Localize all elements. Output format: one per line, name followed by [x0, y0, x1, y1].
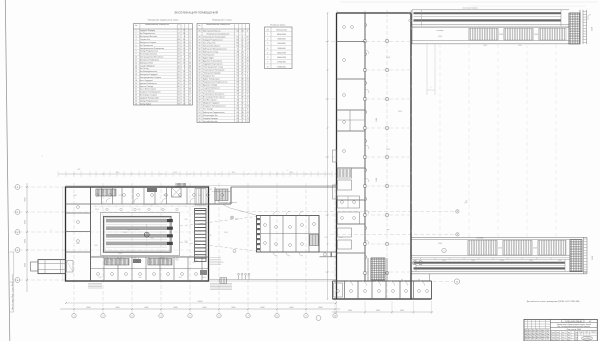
svg-text:Душевая Бойлерная: Душевая Бойлерная: [140, 82, 157, 85]
svg-text:Изм: Изм: [536, 329, 539, 331]
svg-text:Тамбур Раздевальная: Тамбур Раздевальная: [140, 51, 158, 53]
svg-text:4: 4: [247, 76, 248, 78]
svg-text:1600x1900: 1600x1900: [277, 57, 286, 59]
svg-text:44: 44: [199, 85, 201, 87]
svg-text:Кладовая Зал: Кладовая Зал: [203, 76, 215, 78]
svg-text:Изм: Изм: [524, 336, 527, 338]
svg-text:35: 35: [178, 100, 180, 102]
svg-text:40: 40: [199, 73, 201, 75]
svg-text:6000: 6000: [116, 307, 120, 309]
svg-text:Подпи: Подпи: [540, 339, 545, 341]
svg-text:Погп: Погп: [551, 337, 554, 339]
svg-text:16: 16: [178, 54, 180, 56]
svg-text:обходная дорожка: обходная дорожка: [143, 204, 157, 206]
svg-text:85: 85: [178, 86, 180, 88]
svg-text:Погп: Погп: [551, 332, 554, 334]
svg-text:19: 19: [247, 97, 249, 99]
svg-text:18: 18: [135, 80, 137, 82]
svg-text:Мастерская Бассейн: Мастерская Бассейн: [140, 35, 157, 38]
svg-text:Погп: Погп: [575, 332, 578, 334]
svg-text:63: 63: [237, 45, 239, 47]
svg-text:Изм: Изм: [546, 334, 549, 336]
svg-text:Наименование помещения: Наименование помещения: [145, 24, 169, 26]
svg-text:38: 38: [199, 67, 201, 69]
svg-text:88: 88: [237, 82, 239, 84]
svg-text:20: 20: [189, 62, 191, 64]
svg-text:Погп: Погп: [556, 334, 559, 336]
svg-text:37: 37: [183, 100, 185, 102]
svg-text:22: 22: [189, 80, 191, 82]
svg-text:3000: 3000: [529, 260, 533, 262]
svg-text:28: 28: [242, 115, 244, 117]
svg-text:16: 16: [183, 89, 185, 91]
svg-text:Венткамера Комната: Венткамера Комната: [140, 54, 158, 56]
svg-text:6000: 6000: [290, 307, 294, 309]
svg-text:29: 29: [199, 39, 201, 41]
svg-text:к-та: к-та: [77, 243, 80, 245]
svg-text:6: 6: [136, 45, 137, 47]
svg-text:Санузел Бойлерная: Санузел Бойлерная: [203, 87, 220, 90]
svg-text:28: 28: [199, 36, 201, 38]
svg-text:68: 68: [178, 39, 180, 41]
svg-text:2: 2: [247, 54, 248, 56]
svg-text:МОП: МОП: [235, 219, 239, 221]
svg-text:78: 78: [178, 103, 180, 105]
svg-text:6000: 6000: [232, 172, 236, 174]
svg-text:76: 76: [178, 95, 180, 97]
svg-text:1: 1: [73, 316, 74, 318]
svg-text:22.08: 22.08: [106, 262, 110, 264]
svg-text:28.00: 28.00: [148, 262, 152, 264]
svg-text:6: 6: [267, 57, 268, 59]
svg-text:54: 54: [199, 115, 201, 117]
svg-text:38: 38: [237, 51, 239, 53]
svg-text:Зал Раздевальная: Зал Раздевальная: [140, 33, 155, 35]
svg-text:15.00: 15.00: [386, 57, 390, 59]
svg-text:Погп: Погп: [561, 337, 564, 339]
svg-text:2: 2: [267, 39, 268, 41]
svg-text:37: 37: [178, 57, 180, 59]
svg-text:84: 84: [237, 39, 239, 41]
svg-text:24: 24: [247, 88, 249, 90]
svg-text:12: 12: [135, 62, 137, 64]
svg-text:80: 80: [237, 70, 239, 72]
svg-text:24: 24: [135, 97, 137, 99]
svg-text:Изм: Изм: [524, 334, 527, 336]
svg-text:4: 4: [190, 33, 191, 35]
svg-text:Изм: Изм: [532, 336, 535, 338]
svg-text:Наименование помещения: Наименование помещения: [206, 24, 230, 26]
svg-text:Погп: Погп: [551, 334, 554, 336]
svg-text:50: 50: [178, 74, 180, 76]
svg-text:Комната Тамбур: Комната Тамбур: [140, 86, 154, 88]
svg-text:89: 89: [178, 77, 180, 79]
svg-text:зал: зал: [387, 229, 390, 231]
svg-text:41: 41: [199, 76, 201, 78]
svg-text:5: 5: [189, 316, 190, 318]
svg-text:9: 9: [190, 86, 191, 88]
svg-text:6: 6: [242, 106, 243, 108]
svg-text:28: 28: [247, 60, 249, 62]
svg-text:36: 36: [199, 60, 201, 62]
svg-text:15.00: 15.00: [499, 34, 503, 36]
svg-text:Зал Фильтровальная: Зал Фильтровальная: [140, 70, 158, 73]
svg-text:23: 23: [183, 51, 185, 53]
svg-text:36: 36: [242, 67, 244, 69]
svg-text:Санузел Зал: Санузел Зал: [140, 39, 151, 41]
svg-text:24: 24: [237, 54, 239, 56]
svg-text:Подпи: Подпи: [540, 334, 545, 336]
svg-text:Подпи: Подпи: [540, 332, 545, 334]
svg-text:1: 1: [267, 34, 268, 36]
svg-text:перегородки кирпичные: перегородки кирпичные: [219, 202, 237, 204]
svg-text:6000: 6000: [203, 307, 207, 309]
svg-text:Инв. № подл. Подп. и дата Вз: Инв. № подл. Подп. и дата Взам. инв. №: [11, 274, 14, 310]
svg-text:8900x2600: 8900x2600: [277, 34, 286, 36]
svg-text:9.03: 9.03: [185, 219, 188, 221]
svg-text:13: 13: [189, 74, 191, 76]
svg-text:Погп: Погп: [556, 337, 559, 339]
svg-text:13: 13: [135, 65, 137, 67]
svg-text:64: 64: [237, 115, 239, 117]
svg-text:Гардероб Коридор: Гардероб Коридор: [140, 30, 156, 32]
svg-text:Изм: Изм: [524, 329, 527, 331]
svg-text:7: 7: [184, 68, 185, 70]
svg-text:Изм: Изм: [536, 332, 539, 334]
svg-text:6: 6: [237, 97, 238, 99]
svg-text:2600x900: 2600x900: [278, 39, 286, 41]
svg-text:1: 1: [431, 87, 432, 89]
svg-text:Буфет Буфет: Буфет Буфет: [203, 56, 214, 59]
svg-text:Фильтровальная Помещение: Фильтровальная Помещение: [140, 47, 164, 50]
svg-text:8.06: 8.06: [139, 277, 142, 279]
svg-text:46: 46: [237, 106, 239, 108]
svg-text:14: 14: [242, 63, 244, 65]
svg-text:23: 23: [247, 48, 249, 50]
svg-text:79: 79: [178, 45, 180, 47]
svg-text:Р: Р: [580, 334, 581, 336]
svg-text:Изм: Изм: [524, 332, 527, 334]
svg-text:24: 24: [189, 77, 191, 79]
svg-text:10: 10: [334, 316, 336, 318]
svg-text:9: 9: [136, 54, 137, 56]
svg-text:50: 50: [199, 103, 201, 105]
svg-text:3.02: 3.02: [179, 277, 182, 279]
svg-text:33: 33: [242, 109, 244, 111]
svg-text:3000: 3000: [558, 260, 562, 262]
svg-text:55: 55: [199, 118, 201, 120]
svg-text:Касса Бассейн: Касса Бассейн: [203, 41, 215, 44]
svg-text:28: 28: [189, 89, 191, 91]
svg-text:1600x900: 1600x900: [278, 48, 286, 50]
svg-text:5: 5: [247, 51, 248, 53]
svg-text:32: 32: [199, 48, 201, 50]
svg-text:6000: 6000: [25, 220, 27, 224]
svg-text:31: 31: [199, 45, 201, 47]
svg-text:26: 26: [183, 71, 185, 73]
svg-text:Коридор Раздевальная: Коридор Раздевальная: [203, 39, 222, 41]
svg-text:2: 2: [242, 100, 243, 102]
svg-text:Погп: Погп: [575, 334, 578, 336]
svg-text:Изм: Изм: [546, 336, 549, 338]
svg-text:12.00: 12.00: [118, 253, 122, 255]
svg-text:Электрощитовая Санузел: Электрощитовая Санузел: [140, 77, 162, 79]
svg-text:Зал Тамбур: Зал Тамбур: [203, 109, 213, 111]
svg-text:42: 42: [199, 79, 201, 81]
svg-text:12: 12: [183, 74, 185, 76]
svg-text:Изм: Изм: [532, 329, 535, 331]
svg-text:6000: 6000: [232, 307, 236, 309]
svg-text:19: 19: [135, 83, 137, 85]
svg-text:8: 8: [178, 36, 179, 38]
svg-text:35: 35: [242, 45, 244, 47]
svg-text:Помещения обслуживания: Помещения обслуживания: [207, 33, 229, 35]
svg-text:16: 16: [247, 91, 249, 93]
svg-text:31: 31: [178, 51, 180, 53]
svg-text:50: 50: [237, 73, 239, 75]
svg-text:38: 38: [242, 112, 244, 114]
svg-text:6000: 6000: [145, 307, 149, 309]
svg-text:35: 35: [199, 57, 201, 59]
svg-text:31: 31: [183, 97, 185, 99]
svg-text:Изм: Изм: [546, 329, 549, 331]
svg-text:Условные обозн.: Условные обозн.: [270, 25, 286, 27]
svg-text:56: 56: [199, 121, 201, 123]
svg-text:16.02: 16.02: [224, 232, 228, 234]
svg-text:Бойлерная Фильтровальная: Бойлерная Фильтровальная: [203, 47, 227, 50]
svg-text:3000: 3000: [376, 310, 380, 312]
svg-text:Изм: Изм: [528, 334, 531, 336]
svg-text:44: 44: [178, 92, 180, 94]
svg-text:4: 4: [190, 36, 191, 38]
svg-text:17: 17: [237, 60, 239, 62]
svg-text:41: 41: [178, 68, 180, 70]
svg-text:21: 21: [242, 73, 244, 75]
svg-text:9: 9: [190, 30, 191, 32]
svg-text:Погп: Погп: [567, 332, 570, 334]
svg-text:4: 4: [184, 65, 185, 67]
svg-text:Тамбур Раздевальная: Тамбур Раздевальная: [140, 100, 158, 102]
svg-text:8: 8: [267, 66, 268, 68]
svg-text:10: 10: [189, 71, 191, 73]
svg-text:22: 22: [183, 95, 185, 97]
svg-text:76: 76: [237, 76, 239, 78]
svg-text:6: 6: [190, 97, 191, 99]
svg-text:15: 15: [237, 36, 239, 38]
svg-text:900x2600: 900x2600: [278, 43, 286, 45]
svg-text:Помещение Коридор: Помещение Коридор: [203, 73, 221, 75]
svg-text:25: 25: [242, 91, 244, 93]
svg-text:Подпи: Подпи: [540, 329, 545, 331]
svg-text:26: 26: [199, 30, 201, 32]
svg-text:92: 92: [237, 88, 239, 90]
svg-text:16.08: 16.08: [163, 195, 167, 197]
svg-text:3.000: 3.000: [376, 178, 378, 182]
svg-text:23: 23: [247, 121, 249, 123]
svg-text:В 900-900: В 900-900: [277, 62, 285, 64]
svg-text:11: 11: [237, 103, 239, 105]
svg-text:21: 21: [135, 89, 137, 91]
svg-text:36: 36: [242, 79, 244, 81]
svg-text:16: 16: [178, 71, 180, 73]
svg-text:36: 36: [183, 42, 185, 44]
svg-text:Электрощитовая Вестибюль: Электрощитовая Вестибюль: [140, 57, 164, 59]
svg-text:30: 30: [199, 42, 201, 44]
svg-text:46: 46: [199, 91, 201, 93]
svg-text:15.00: 15.00: [534, 34, 538, 36]
svg-text:32: 32: [237, 100, 239, 102]
svg-text:27.01: 27.01: [161, 258, 165, 260]
svg-text:14: 14: [242, 88, 244, 90]
svg-text:45: 45: [199, 88, 201, 90]
svg-text:18: 18: [247, 106, 249, 108]
svg-text:29: 29: [183, 48, 185, 50]
svg-text:Изм: Изм: [532, 332, 535, 334]
svg-text:19: 19: [183, 77, 185, 79]
svg-text:3000: 3000: [500, 260, 504, 262]
svg-text:13: 13: [178, 80, 180, 82]
svg-text:Кладовая Фильтровальная: Кладовая Фильтровальная: [203, 105, 225, 108]
svg-text:Бойлерная Санузел: Бойлерная Санузел: [140, 41, 157, 44]
svg-text:27: 27: [247, 39, 249, 41]
svg-text:15: 15: [135, 71, 137, 73]
svg-text:8: 8: [190, 95, 191, 97]
svg-text:14.00: 14.00: [202, 277, 206, 279]
svg-text:48: 48: [199, 97, 201, 99]
svg-text:гидромассажная: гидромассажная: [127, 229, 139, 231]
svg-text:15.00: 15.00: [592, 256, 594, 260]
svg-text:16: 16: [242, 103, 244, 105]
svg-text:Лаборатория Зал: Лаборатория Зал: [203, 115, 218, 117]
svg-text:Гардероб Лаборатория: Гардероб Лаборатория: [140, 97, 159, 99]
svg-text:12: 12: [242, 39, 244, 41]
svg-text:88: 88: [237, 118, 239, 120]
svg-text:1600x1900: 1600x1900: [277, 52, 286, 54]
svg-text:5: 5: [136, 42, 137, 44]
svg-text:26: 26: [247, 79, 249, 81]
svg-text:54: 54: [178, 97, 180, 99]
svg-text:Обозначение: Обозначение: [276, 29, 287, 31]
svg-text:17: 17: [178, 33, 180, 35]
svg-text:3: 3: [184, 36, 185, 38]
svg-text:Медпункт Гардероб: Медпункт Гардероб: [203, 103, 219, 105]
svg-text:9: 9: [247, 94, 248, 96]
svg-text:20: 20: [247, 112, 249, 114]
svg-text:7: 7: [267, 62, 268, 64]
svg-text:37: 37: [237, 57, 239, 59]
svg-text:Буфет Лаборатория: Буфет Лаборатория: [203, 78, 220, 81]
svg-text:Изм: Изм: [532, 334, 535, 336]
svg-text:12: 12: [189, 48, 191, 50]
svg-text:15.00: 15.00: [592, 27, 594, 31]
svg-text:Изм: Изм: [528, 339, 531, 341]
svg-text:3000: 3000: [483, 45, 487, 47]
svg-text:Ж: Ж: [17, 232, 19, 234]
svg-text:26: 26: [247, 67, 249, 69]
svg-text:Погп: Погп: [556, 332, 559, 334]
svg-text:п/п: п/п: [266, 29, 268, 31]
svg-text:4: 4: [247, 103, 248, 105]
svg-text:16: 16: [189, 83, 191, 85]
svg-text:39: 39: [199, 70, 201, 72]
svg-text:25: 25: [189, 57, 191, 59]
svg-text:16.00: 16.00: [398, 111, 402, 113]
svg-text:17: 17: [247, 70, 249, 72]
svg-text:3.000: 3.000: [376, 118, 378, 122]
svg-text:6000: 6000: [319, 307, 323, 309]
svg-text:7: 7: [242, 76, 243, 78]
svg-text:Зал Тренерская: Зал Тренерская: [140, 45, 153, 47]
svg-text:29: 29: [189, 54, 191, 56]
svg-text:34: 34: [199, 54, 201, 56]
svg-text:3: 3: [267, 43, 268, 45]
svg-text:81: 81: [237, 63, 239, 65]
svg-text:19: 19: [189, 100, 191, 102]
svg-text:17: 17: [135, 77, 137, 79]
svg-text:9: 9: [247, 73, 248, 75]
svg-text:Погп: Погп: [567, 337, 570, 339]
svg-text:Погп: Погп: [575, 337, 578, 339]
svg-text:63: 63: [237, 121, 239, 123]
svg-text:1: 1: [444, 250, 445, 252]
svg-text:80: 80: [237, 42, 239, 44]
svg-text:9: 9: [305, 316, 306, 318]
svg-text:10.07: 10.07: [73, 195, 77, 197]
svg-text:37: 37: [199, 63, 201, 65]
svg-text:29: 29: [247, 36, 249, 38]
svg-text:Данный план этажа с размерами: Данный план этажа с размерами (УЗЛЫ 1-24…: [527, 300, 580, 303]
svg-text:3.14: 3.14: [208, 189, 211, 191]
svg-text:5: 5: [190, 51, 191, 53]
svg-text:15.00: 15.00: [438, 36, 442, 38]
svg-text:3: 3: [131, 316, 132, 318]
svg-text:Зал Мастерская: Зал Мастерская: [203, 100, 217, 102]
svg-text:19: 19: [237, 94, 239, 96]
svg-text:ЛенЗНИИЭП: ЛенЗНИИЭП: [583, 338, 591, 340]
svg-text:Электрощитовая Склад: Электрощитовая Склад: [203, 67, 224, 69]
svg-text:В 900-900: В 900-900: [277, 66, 285, 68]
svg-text:27: 27: [183, 92, 185, 94]
svg-text:19: 19: [183, 45, 185, 47]
svg-text:25.05: 25.05: [123, 232, 127, 234]
svg-text:Изм: Изм: [524, 339, 527, 341]
svg-text:Помещения 1 этажа: Помещения 1 этажа: [212, 20, 232, 22]
svg-text:10: 10: [135, 57, 137, 59]
svg-text:Касса Инвентарная: Касса Инвентарная: [140, 89, 156, 91]
svg-text:Изм: Изм: [528, 336, 531, 338]
svg-text:9.01: 9.01: [119, 195, 122, 197]
svg-text:89: 89: [237, 109, 239, 111]
svg-text:2: 2: [136, 33, 137, 35]
svg-text:Стад: Стад: [579, 331, 582, 333]
svg-text:54000: 54000: [198, 301, 203, 303]
svg-text:Тренерская Гардероб: Тренерская Гардероб: [140, 74, 158, 76]
svg-text:Бойлерная Склад: Бойлерная Склад: [203, 50, 219, 53]
svg-text:24: 24: [237, 67, 239, 69]
svg-text:6: 6: [247, 30, 248, 32]
svg-text:3000: 3000: [442, 260, 446, 262]
svg-text:15.00: 15.00: [533, 248, 537, 250]
svg-text:Лист: Лист: [585, 331, 588, 333]
svg-text:16: 16: [242, 30, 244, 32]
svg-text:23: 23: [135, 95, 137, 97]
svg-text:29: 29: [242, 118, 244, 120]
svg-text:96: 96: [237, 112, 239, 114]
svg-text:5.00: 5.00: [199, 195, 202, 197]
svg-text:20: 20: [135, 86, 137, 88]
svg-text:4: 4: [247, 100, 248, 102]
svg-text:Изм: Изм: [536, 336, 539, 338]
